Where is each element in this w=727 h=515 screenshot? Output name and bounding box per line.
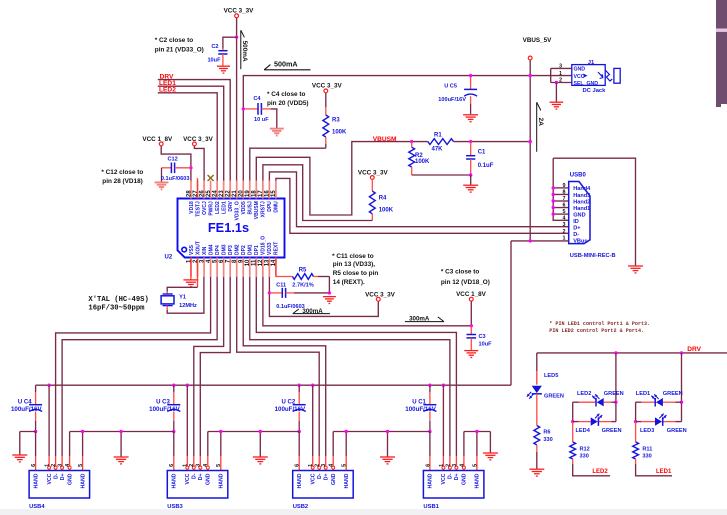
svg-text:USB3: USB3 bbox=[167, 504, 183, 510]
ground (C4) bbox=[270, 129, 284, 136]
ground (USB0) bbox=[628, 266, 643, 273]
node junction C4 tap bbox=[242, 107, 245, 110]
wire USB2 D- lower bbox=[318, 456, 321, 471]
svg-text:100uF/16V: 100uF/16V bbox=[149, 406, 180, 413]
svg-text:Hand2: Hand2 bbox=[573, 199, 590, 205]
node junction USB1 cap bottom bbox=[428, 430, 431, 433]
svg-text:100K: 100K bbox=[415, 159, 430, 165]
node junction USB1 VCC bbox=[442, 384, 445, 387]
svg-text:HAND: HAND bbox=[344, 473, 350, 488]
svg-text:DRV: DRV bbox=[687, 346, 701, 353]
ground (C1) bbox=[463, 185, 478, 192]
wire ground seg B bbox=[70, 430, 174, 457]
wire pin16 DPU to USB0 D+ bbox=[269, 172, 568, 227]
crystal Y1 bbox=[161, 294, 197, 309]
svg-text:PIN LED2 control Port2 & Port4: PIN LED2 control Port2 & Port4. bbox=[549, 328, 644, 334]
svg-text:9: 9 bbox=[563, 183, 566, 189]
svg-text:VCC: VCC bbox=[47, 473, 53, 484]
wire USB2 HAND pin5 bbox=[345, 432, 347, 471]
resistor R6 bbox=[534, 394, 553, 469]
svg-text:0.1uF/0603: 0.1uF/0603 bbox=[161, 176, 190, 182]
wire pin27 TESTJ stub bbox=[197, 178, 199, 198]
svg-text:DM2: DM2 bbox=[235, 244, 241, 255]
node junction U C5 tap bbox=[469, 74, 472, 77]
svg-text:R5 close to pin: R5 close to pin bbox=[333, 270, 379, 277]
resistor R3 bbox=[323, 93, 347, 148]
wire USB4 D+ lower bbox=[61, 456, 64, 471]
svg-text:LED3: LED3 bbox=[640, 428, 654, 434]
wire VBUS vertical bbox=[529, 60, 531, 241]
wire VBUS drop to USB rail bbox=[510, 241, 512, 385]
node junction pin13/C11 bbox=[268, 291, 271, 294]
svg-text:DP1: DP1 bbox=[254, 245, 260, 255]
resistor R5 bbox=[293, 268, 330, 280]
svg-text:10uF: 10uF bbox=[479, 341, 493, 347]
ground (LED5/R6) bbox=[529, 469, 544, 476]
wire LED2 to pin 24 bbox=[158, 93, 217, 181]
chip pin-1 indicator bbox=[182, 247, 187, 252]
svg-text:VCC: VCC bbox=[185, 473, 191, 484]
svg-text:DPU: DPU bbox=[267, 201, 273, 212]
ground G3 bbox=[253, 457, 268, 464]
svg-text:* C3 close to: * C3 close to bbox=[441, 269, 479, 276]
svg-text:12MHz: 12MHz bbox=[179, 303, 197, 309]
connector USB1 pin names bbox=[428, 473, 481, 488]
svg-text:2: 2 bbox=[189, 464, 195, 467]
svg-text:3: 3 bbox=[452, 464, 458, 467]
connector USB0 title bbox=[570, 172, 587, 178]
svg-text:C2: C2 bbox=[211, 44, 218, 50]
svg-text:VBUSM: VBUSM bbox=[373, 136, 397, 143]
svg-text:5: 5 bbox=[563, 209, 566, 215]
svg-text:5: 5 bbox=[472, 464, 478, 467]
svg-text:USB1: USB1 bbox=[423, 504, 439, 510]
ground (C12) bbox=[155, 182, 169, 189]
connector USB3 pin names bbox=[172, 473, 225, 488]
svg-text:R4: R4 bbox=[379, 195, 387, 201]
power symbol VCC 3_3V (R4) bbox=[358, 169, 389, 179]
diode LED3 bbox=[640, 414, 667, 434]
ground (C11/R5) bbox=[323, 297, 336, 304]
svg-text:6: 6 bbox=[563, 203, 566, 209]
svg-text:C12: C12 bbox=[168, 157, 178, 163]
svg-text:2: 2 bbox=[563, 229, 566, 235]
svg-text:3: 3 bbox=[58, 464, 64, 467]
wire C1 bottom to ground bbox=[470, 175, 472, 185]
node junction USB2 cap bottom bbox=[298, 430, 301, 433]
svg-text:U2: U2 bbox=[165, 255, 173, 261]
J1 pin numbers bbox=[559, 64, 562, 84]
chip pin stubs (salmon) bbox=[191, 181, 276, 277]
svg-text:4: 4 bbox=[563, 216, 566, 222]
ground (U C5) bbox=[463, 115, 478, 122]
wire USB1 D- lower bbox=[448, 456, 451, 471]
wire J1 ground drop bbox=[555, 83, 557, 102]
wire LED1 to pin 23 bbox=[158, 86, 224, 180]
chip name FE1.1s bbox=[208, 220, 249, 235]
connector USB0 pins bbox=[552, 183, 592, 245]
svg-text:OVCJ: OVCJ bbox=[202, 201, 208, 215]
svg-text:1: 1 bbox=[308, 464, 314, 467]
wire pin19 BUSJ to R3 bbox=[250, 148, 326, 180]
svg-text:VBUS_5V: VBUS_5V bbox=[523, 37, 552, 44]
svg-text:13: 13 bbox=[265, 259, 271, 266]
wire USB4 cap column bbox=[35, 385, 37, 405]
svg-text:HAND: HAND bbox=[172, 473, 178, 488]
svg-text:21: 21 bbox=[232, 190, 238, 197]
svg-text:D+: D+ bbox=[198, 474, 204, 481]
svg-text:* C2 close to: * C2 close to bbox=[155, 37, 193, 44]
connector USB3 pin numbers bbox=[169, 463, 222, 467]
svg-text:U C1: U C1 bbox=[412, 399, 426, 405]
wire DRV LED line bbox=[537, 352, 727, 354]
node junction C1 top bbox=[469, 140, 472, 143]
wire pin10 DM1 to USB1 D- bbox=[250, 277, 450, 456]
svg-text:VD33_O: VD33_O bbox=[235, 201, 241, 220]
resistor R2 bbox=[409, 142, 430, 175]
ground G2 bbox=[114, 457, 129, 464]
svg-text:3: 3 bbox=[321, 464, 327, 467]
chip pin names bbox=[189, 201, 280, 255]
wire ground seg D bbox=[333, 430, 430, 457]
annotation 2A arrow bbox=[537, 102, 545, 152]
svg-text:HAND: HAND bbox=[219, 473, 225, 488]
svg-text:LED1: LED1 bbox=[636, 391, 650, 397]
ground (VSS) bbox=[183, 280, 198, 287]
right scrollbar bbox=[716, 0, 727, 107]
svg-text:J1: J1 bbox=[588, 60, 595, 66]
svg-text:HAND: HAND bbox=[475, 473, 481, 488]
node junction J1 pin2 bbox=[555, 81, 558, 84]
svg-text:22: 22 bbox=[225, 190, 231, 197]
svg-text:5: 5 bbox=[78, 464, 84, 467]
diode LED1 bbox=[636, 391, 663, 407]
svg-text:5: 5 bbox=[342, 464, 348, 467]
svg-text:VSS: VSS bbox=[189, 244, 195, 255]
svg-text:DM4: DM4 bbox=[208, 244, 214, 255]
bottom edge strip bbox=[0, 509, 727, 515]
ground (J1) bbox=[550, 102, 564, 109]
svg-text:GREEN: GREEN bbox=[602, 428, 622, 434]
svg-text:100uF/16V: 100uF/16V bbox=[438, 97, 466, 103]
wire pin6 DM3 to USB3 D- bbox=[194, 277, 224, 456]
svg-text:VCC 3_3V: VCC 3_3V bbox=[365, 291, 396, 298]
svg-text:15: 15 bbox=[271, 190, 277, 197]
svg-text:VCC: VCC bbox=[574, 74, 585, 80]
svg-text:LED2: LED2 bbox=[215, 201, 221, 214]
svg-text:VCC 3_3V: VCC 3_3V bbox=[312, 82, 343, 89]
svg-text:ID: ID bbox=[573, 219, 579, 225]
svg-text:D+: D+ bbox=[324, 474, 330, 481]
power symbol VCC 3_3V (pin21) bbox=[224, 7, 255, 17]
svg-text:U C2: U C2 bbox=[282, 399, 296, 405]
svg-text:USB2: USB2 bbox=[293, 504, 308, 510]
wire USB3 pin6 column bbox=[173, 432, 175, 471]
power symbol VCC 3_3V (R3) bbox=[312, 82, 343, 93]
svg-text:2: 2 bbox=[559, 78, 562, 84]
svg-text:HAND: HAND bbox=[428, 473, 434, 488]
resistor R1 bbox=[428, 133, 454, 153]
svg-text:C3: C3 bbox=[479, 334, 486, 340]
svg-text:12: 12 bbox=[258, 259, 264, 266]
wire ground seg C bbox=[208, 430, 299, 457]
wire crystal to pin3 XIN bbox=[167, 277, 204, 314]
note C11/R5 bbox=[332, 253, 378, 286]
net label VBUSM bbox=[373, 136, 397, 143]
net label DRV (right) bbox=[687, 346, 701, 353]
svg-text:* PIN LED1 control Port1 & Por: * PIN LED1 control Port1 & Port3. bbox=[549, 321, 650, 327]
annotation 300mA (right) bbox=[405, 315, 444, 322]
node junction USB3 cap bottom bbox=[172, 430, 175, 433]
svg-text:0.1uF/0603: 0.1uF/0603 bbox=[276, 304, 305, 310]
capacitor U C2 bbox=[275, 399, 306, 431]
wire pin4 DM4 to USB4 D- bbox=[56, 277, 211, 456]
note X'TAL bbox=[88, 296, 148, 312]
wire USB1 cap column bbox=[428, 384, 431, 405]
wire USB0 pin1 VBus bbox=[511, 240, 569, 242]
svg-text:R3: R3 bbox=[332, 118, 340, 124]
svg-text:24: 24 bbox=[212, 190, 218, 197]
chip U2 FE1.1s outline bbox=[178, 199, 285, 258]
node junction C2 tap bbox=[235, 36, 238, 39]
svg-text:BUSJ: BUSJ bbox=[248, 201, 254, 215]
svg-text:VD18_O: VD18_O bbox=[261, 236, 267, 255]
wire USB4 VCC pin1 bbox=[48, 385, 51, 470]
wire LED1 pair frame bbox=[634, 353, 683, 423]
wire USB0 gnd harness bbox=[553, 158, 635, 265]
connector J1 bracket wires bbox=[551, 68, 572, 82]
ground G1 bbox=[12, 455, 27, 462]
wire USB1 HAND pin5 bbox=[476, 432, 478, 471]
connector USB2 body bbox=[293, 471, 354, 499]
wire pin8 DM2 to USB2 D- bbox=[237, 277, 319, 456]
resistor R4 bbox=[369, 180, 393, 221]
svg-text:10uF: 10uF bbox=[207, 57, 221, 63]
wire ground seg (USB4 left) bbox=[20, 432, 36, 455]
wire R1 right to VBUS bbox=[454, 141, 531, 143]
svg-text:1: 1 bbox=[439, 464, 445, 467]
annotation 300mA (left) bbox=[293, 308, 330, 315]
capacitor C3 bbox=[467, 334, 493, 350]
svg-text:VDD5: VDD5 bbox=[241, 201, 247, 215]
node junction VBUS/pin1 bbox=[529, 239, 532, 242]
wire R5 right down bbox=[328, 277, 330, 293]
svg-text:17: 17 bbox=[258, 190, 264, 197]
svg-text:U C5: U C5 bbox=[444, 84, 457, 90]
label GREEN (LED4) bbox=[602, 428, 622, 434]
svg-text:7: 7 bbox=[563, 196, 566, 202]
wire USB3 HAND pin5 bbox=[220, 432, 222, 471]
node junction C11/R5 ground bbox=[328, 291, 331, 294]
svg-text:D-: D- bbox=[317, 473, 323, 479]
no-connect X pin 25 bbox=[208, 175, 214, 181]
svg-text:2: 2 bbox=[51, 464, 57, 467]
svg-text:100uF/16V: 100uF/16V bbox=[275, 406, 306, 413]
svg-text:26: 26 bbox=[199, 190, 205, 197]
resistor R12 bbox=[570, 422, 610, 476]
svg-text:16pF/30~50ppm: 16pF/30~50ppm bbox=[88, 304, 145, 312]
svg-text:2: 2 bbox=[445, 464, 451, 467]
diode LED4 bbox=[576, 414, 603, 434]
wire USB3 D+ lower bbox=[199, 456, 202, 471]
note C2 close to pin 21 bbox=[155, 37, 204, 53]
svg-text:R6: R6 bbox=[543, 430, 550, 436]
connector USB1 pin numbers bbox=[425, 463, 478, 467]
svg-text:8: 8 bbox=[563, 189, 566, 195]
connector USB2 title bbox=[293, 504, 308, 510]
wire VCC1_8V to C3 bbox=[470, 301, 473, 334]
svg-text:DMU: DMU bbox=[274, 201, 280, 213]
svg-text:pin 13 (VD33),: pin 13 (VD33), bbox=[333, 261, 375, 268]
ground (C3) bbox=[464, 351, 478, 358]
svg-text:USB4: USB4 bbox=[29, 504, 45, 510]
svg-text:pin 28 (VD18): pin 28 (VD18) bbox=[102, 178, 143, 185]
svg-text:GND: GND bbox=[462, 473, 468, 485]
svg-text:TESTJ: TESTJ bbox=[195, 201, 201, 217]
svg-text:GREEN: GREEN bbox=[544, 393, 564, 399]
svg-text:C11: C11 bbox=[276, 283, 286, 289]
wire USB3 D- lower bbox=[192, 456, 195, 471]
wire pin7 DP3 to USB3 D+ bbox=[200, 277, 230, 456]
note PIN LED control bbox=[549, 321, 650, 334]
svg-text:5: 5 bbox=[216, 464, 222, 467]
svg-text:D+: D+ bbox=[454, 474, 460, 481]
svg-text:2: 2 bbox=[315, 464, 321, 467]
svg-text:2A: 2A bbox=[537, 118, 544, 127]
wire pin1 VSS to ground bbox=[190, 258, 192, 280]
svg-text:X'TAL (HC-49S): X'TAL (HC-49S) bbox=[88, 296, 148, 304]
connector USB4 body bbox=[29, 471, 90, 499]
label GREEN (LED2) bbox=[604, 391, 624, 397]
svg-text:Hand1: Hand1 bbox=[573, 206, 590, 212]
net label DRV (left) bbox=[160, 73, 174, 80]
wire VCC1_8V to pin 28 bbox=[161, 146, 191, 181]
node junction USB4 cap bottom bbox=[34, 430, 37, 433]
capacitor U C4 bbox=[11, 399, 42, 431]
svg-text:R11: R11 bbox=[642, 447, 652, 453]
diode LED2 bbox=[577, 391, 604, 407]
svg-text:LED1: LED1 bbox=[656, 469, 672, 475]
node junction VBUS/rail bbox=[529, 74, 532, 77]
wire USB4 D- lower bbox=[54, 456, 57, 471]
note C12 close to pin 28 bbox=[101, 169, 143, 185]
svg-text:HAND: HAND bbox=[33, 473, 39, 488]
svg-text:pin 12 (VD18_O): pin 12 (VD18_O) bbox=[441, 279, 490, 286]
svg-text:VCC 1_8V: VCC 1_8V bbox=[142, 136, 173, 143]
svg-text:LED5: LED5 bbox=[544, 373, 558, 379]
wire pin12 VD18_O to C3 bbox=[263, 277, 471, 326]
svg-text:20: 20 bbox=[239, 190, 245, 197]
svg-text:D-: D- bbox=[192, 473, 198, 479]
svg-text:DM3: DM3 bbox=[221, 244, 227, 255]
label GREEN (LED3) bbox=[667, 428, 687, 434]
wire USB3 VCC pin1 bbox=[186, 385, 189, 470]
svg-text:HAND: HAND bbox=[80, 473, 86, 488]
svg-text:LED2: LED2 bbox=[577, 391, 591, 397]
connector USB2 pin numbers bbox=[295, 463, 348, 467]
svg-text:2.7K/1%: 2.7K/1% bbox=[292, 283, 313, 289]
svg-text:* C12 close to: * C12 close to bbox=[101, 169, 143, 176]
svg-text:6: 6 bbox=[295, 464, 301, 467]
ground (C2) bbox=[217, 66, 230, 73]
wire VCC3_3V to pin 21 bbox=[236, 18, 238, 181]
svg-text:R5: R5 bbox=[299, 268, 307, 274]
wire ground seg E bbox=[464, 430, 491, 453]
node junction C12 tap bbox=[189, 166, 192, 169]
wire USB2 pin6 column bbox=[298, 432, 300, 471]
capacitor C2 bbox=[207, 44, 227, 66]
svg-text:Y1: Y1 bbox=[179, 295, 186, 301]
svg-text:100K: 100K bbox=[332, 130, 347, 136]
svg-text:6: 6 bbox=[169, 464, 175, 467]
svg-text:11: 11 bbox=[252, 259, 258, 266]
wire pin15 DMU to USB0 D- bbox=[276, 178, 569, 233]
capacitor C4 bbox=[245, 96, 277, 128]
svg-text:23: 23 bbox=[219, 190, 225, 197]
ground G4 bbox=[380, 457, 395, 464]
svg-text:R1: R1 bbox=[434, 133, 442, 139]
node junction USB3 VCC bbox=[186, 384, 189, 387]
svg-text:R12: R12 bbox=[580, 447, 590, 453]
power symbol VCC 1_8V (C3) bbox=[456, 291, 487, 301]
svg-text:500mA: 500mA bbox=[274, 59, 298, 68]
svg-text:DM1: DM1 bbox=[248, 244, 254, 255]
svg-text:10: 10 bbox=[245, 259, 251, 266]
svg-text:DP4: DP4 bbox=[215, 245, 221, 255]
note C4 close to pin 20 bbox=[267, 91, 309, 107]
connector USB1 body bbox=[423, 471, 484, 499]
diode LED5 bbox=[527, 373, 564, 399]
svg-text:pin 21 (VD33_O): pin 21 (VD33_O) bbox=[155, 46, 204, 53]
chip pin numbers bbox=[186, 190, 277, 267]
svg-text:VCC 3_3V: VCC 3_3V bbox=[183, 136, 214, 143]
wire USB4 pin6 column bbox=[35, 432, 37, 471]
connector USB1 title bbox=[423, 504, 439, 510]
wire USB3 cap column bbox=[172, 384, 175, 405]
power symbol VCC 3_3V (pin26) bbox=[183, 136, 214, 146]
connector USB2 pin names bbox=[297, 473, 350, 488]
wire pin18 VBUSM bbox=[256, 142, 428, 215]
svg-text:VD18: VD18 bbox=[189, 201, 195, 214]
wire USB VCC rail bbox=[36, 384, 511, 386]
svg-text:VCC 3_3V: VCC 3_3V bbox=[224, 7, 255, 14]
svg-text:pin 20 (VDD5): pin 20 (VDD5) bbox=[267, 100, 309, 107]
svg-text:GREEN: GREEN bbox=[604, 391, 624, 397]
wire USB2 VCC pin1 bbox=[311, 385, 314, 470]
wire pin5 DP4 to USB4 D+ bbox=[62, 277, 217, 456]
net label LED1 (left) bbox=[159, 80, 176, 87]
svg-text:1: 1 bbox=[45, 464, 51, 467]
svg-text:D-: D- bbox=[573, 232, 579, 238]
node junction DRV/LED1 branch bbox=[680, 351, 683, 354]
connector J1 body bbox=[572, 60, 605, 87]
wire C2 branch bbox=[223, 37, 237, 51]
connector USB0 body bbox=[569, 182, 590, 244]
svg-text:GND: GND bbox=[574, 67, 586, 73]
svg-text:GND: GND bbox=[67, 473, 73, 485]
wire USB1 VCC pin1 bbox=[442, 385, 445, 470]
svg-text:D-: D- bbox=[448, 473, 454, 479]
wire pin14 REXT to R5 bbox=[276, 258, 293, 277]
wire pin9 DP2 to USB2 D+ bbox=[243, 277, 325, 456]
capacitor C1 bbox=[466, 142, 494, 175]
svg-text:14 (REXT).: 14 (REXT). bbox=[333, 279, 365, 286]
chip refdes U2 bbox=[165, 255, 173, 261]
label GREEN (LED1) bbox=[663, 391, 683, 397]
power symbol VCC 1_8V (C12) bbox=[142, 136, 173, 146]
svg-text:28: 28 bbox=[186, 190, 192, 197]
capacitor U C5 bbox=[438, 76, 477, 115]
